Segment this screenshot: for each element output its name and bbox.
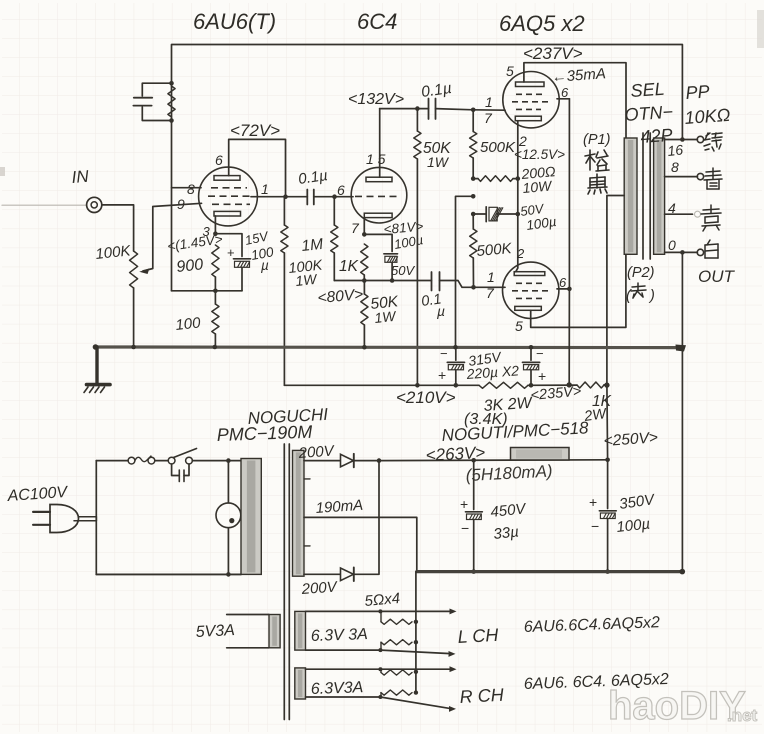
plug AC body xyxy=(50,505,79,533)
svg-text:1: 1 xyxy=(261,181,269,197)
wire primary loop top xyxy=(96,460,128,462)
svg-text:<263V>: <263V> xyxy=(425,443,486,465)
node pilot bottom xyxy=(226,572,231,577)
wire 100 to ground bus xyxy=(214,291,216,304)
svg-text:8: 8 xyxy=(671,159,679,175)
wire 50K cathode load xyxy=(363,281,365,295)
svg-text:7: 7 xyxy=(484,110,493,126)
cord to loop xyxy=(79,516,97,518)
svg-text:<210V>: <210V> xyxy=(396,388,456,407)
svg-text:PMC−190M: PMC−190M xyxy=(216,422,312,445)
wire 100K1W vertical plate feed to B+ rail xyxy=(283,253,285,385)
svg-text:1: 1 xyxy=(487,269,495,285)
tube V4 cathode bar xyxy=(514,272,545,276)
wire HV center tap xyxy=(304,517,417,571)
svg-text:6.3V3A: 6.3V3A xyxy=(311,679,364,698)
node cap bottom xyxy=(390,278,395,283)
kanji midori green xyxy=(704,133,722,151)
wire bias ground branch xyxy=(456,196,474,346)
capacitor 100u 350V filter xyxy=(607,460,609,509)
resistor 100K 1W V1 plate load xyxy=(281,225,288,253)
node B+ 50Kfeed xyxy=(415,383,420,388)
node bus biascap2 xyxy=(529,345,534,350)
svg-text:OUT: OUT xyxy=(698,267,736,286)
node hum center R1 xyxy=(414,670,418,674)
svg-text:<12.5V>: <12.5V> xyxy=(514,147,565,162)
svg-text:6: 6 xyxy=(561,85,569,100)
svg-text:5V3A: 5V3A xyxy=(195,622,235,641)
wire humdinger bus xyxy=(415,572,417,694)
wire V1 cathode stem xyxy=(214,216,216,234)
node cathode-200ohm xyxy=(516,176,521,181)
svg-text:<132V>: <132V> xyxy=(348,91,404,108)
svg-text:500K: 500K xyxy=(476,240,513,260)
capacitor 0.1u coupling upper xyxy=(428,99,430,120)
terminal 8 ohm blue xyxy=(697,173,703,179)
node 100u bottom xyxy=(605,569,610,574)
wire B+ rail xyxy=(284,384,479,386)
wire primary loop left+bottom xyxy=(95,461,97,521)
label P1 orange black kanji xyxy=(585,150,609,171)
svg-text:R CH: R CH xyxy=(459,685,505,707)
transformer PT 6.3V winding L xyxy=(295,611,306,650)
resistor 1K V2 cathode xyxy=(361,244,368,275)
svg-text:µ: µ xyxy=(437,303,445,319)
node rectifier output xyxy=(377,458,382,463)
svg-text:+: + xyxy=(227,245,235,260)
resistor VR1 100K volume pot xyxy=(130,251,138,288)
node bias cap left xyxy=(471,212,476,217)
wire shared cathode line xyxy=(517,121,519,268)
svg-text:−: − xyxy=(461,520,469,536)
ground symbol stem xyxy=(95,347,98,383)
wire 5V leads xyxy=(227,614,269,616)
svg-text:1K: 1K xyxy=(339,258,359,275)
transformer OPT core xyxy=(642,133,644,259)
wire V4 screen pin6 xyxy=(557,288,569,290)
node hum center L2 xyxy=(414,640,418,644)
node coupling right xyxy=(332,194,337,199)
svg-text:1: 1 xyxy=(485,94,493,110)
node pilot top xyxy=(226,458,231,463)
wire 132V rail xyxy=(380,108,429,110)
svg-text:.net: .net xyxy=(727,706,758,725)
tube V2 6C4 envelope xyxy=(351,167,407,223)
tube V4 plate bar xyxy=(515,306,542,310)
pot wiper arrow to V1 grid xyxy=(143,203,202,271)
node NFB top xyxy=(169,81,174,86)
node 900 bottom xyxy=(213,289,218,294)
wire 0-tap ground drop xyxy=(681,348,683,572)
svg-text:100: 100 xyxy=(175,314,202,334)
svg-text:−: − xyxy=(591,518,599,534)
wire secondary tap 4 xyxy=(665,213,693,215)
lamp PL pilot xyxy=(216,503,241,528)
svg-text:1W: 1W xyxy=(295,271,319,289)
wire D1 to B node xyxy=(354,460,379,462)
wire V2 plate to 132V rail xyxy=(379,109,381,178)
node bus pot xyxy=(131,345,136,350)
svg-text:5Ωx4: 5Ωx4 xyxy=(364,590,401,610)
wire 6.3VR top lead xyxy=(306,668,450,670)
svg-text:8: 8 xyxy=(187,181,195,197)
wire 1K to 80V rail xyxy=(363,275,365,281)
resistor NFB feedback xyxy=(168,86,175,117)
resistor 500K upper grid leak xyxy=(470,132,477,159)
capacitor 220u X2 unit1 xyxy=(455,347,457,360)
transformer PT core xyxy=(283,444,285,720)
wire HV top tap to D1 xyxy=(304,460,340,462)
diode D1 xyxy=(341,454,354,467)
resistor hum 5ohm R1 xyxy=(380,669,382,672)
node hum center R2 xyxy=(414,690,418,694)
resistor 900 cathode bias xyxy=(212,245,219,277)
node B+ cap1 xyxy=(454,383,459,388)
resistor 1K 2W dropper xyxy=(577,382,604,388)
wire cathode rail bottom xyxy=(172,290,243,292)
svg-text:6: 6 xyxy=(215,152,223,168)
node cap-200 junction xyxy=(471,176,476,181)
capacitor 100u 50V V2 bypass xyxy=(364,234,392,251)
capacitor C 0.1u coupling 1 xyxy=(306,190,308,205)
wire 6.3VL bottom lead xyxy=(306,650,449,653)
wire screen bus to 1K2W xyxy=(568,289,570,385)
transformer OPT primary winding xyxy=(624,138,637,254)
transformer OPT secondary winding xyxy=(654,138,665,254)
tube V2 grid dash xyxy=(355,195,401,197)
resistor 500K lower grid leak xyxy=(470,229,477,258)
node bus corner left xyxy=(93,344,99,350)
tube V1 6AU6 envelope xyxy=(199,167,258,226)
node tap0-ground xyxy=(680,250,685,255)
svg-text:<237V>: <237V> xyxy=(523,44,583,63)
wire secondary tap 0 xyxy=(665,251,698,253)
jack J1 input inner xyxy=(91,202,97,208)
svg-text:−: − xyxy=(536,346,544,361)
node hum R bottom xyxy=(378,695,382,699)
wire 250V riser xyxy=(606,385,609,460)
kanji aka red xyxy=(631,283,646,298)
svg-text:50V: 50V xyxy=(391,263,415,278)
wire V4 plate pin5 to OPT P2 xyxy=(531,254,626,327)
svg-text:2: 2 xyxy=(516,246,525,261)
node hum L top xyxy=(378,609,382,613)
node NFB bottom xyxy=(169,118,174,123)
switch S1 xyxy=(168,457,175,464)
svg-text:haoDIY: haoDIY xyxy=(608,684,746,728)
wire V1 plate pin1 to coupling node xyxy=(251,196,286,198)
wire 6.3VR bottom lead xyxy=(306,697,450,708)
resistor 50K 1W V2 plate load xyxy=(414,131,421,159)
capacitor 33u 450V filter xyxy=(473,460,475,509)
svg-text:6AU6(T): 6AU6(T) xyxy=(193,9,276,34)
svg-text:5: 5 xyxy=(515,318,523,334)
tube V3 plate bar xyxy=(516,82,545,87)
svg-text:10W: 10W xyxy=(522,177,554,196)
junction blob bus right xyxy=(676,345,687,352)
choke CH 5H180mA xyxy=(511,448,570,461)
transformer PT 5V winding xyxy=(269,615,280,648)
diode D2 xyxy=(341,568,354,581)
svg-text:7: 7 xyxy=(351,220,360,236)
svg-text:+: + xyxy=(438,367,446,383)
arrow L top xyxy=(450,608,457,614)
wire faint input lead at page edge xyxy=(2,204,86,206)
svg-text:µ: µ xyxy=(261,258,269,273)
wire V4 grid lead xyxy=(474,286,506,288)
svg-text:100µ: 100µ xyxy=(616,516,651,536)
svg-text:10KΩ: 10KΩ xyxy=(684,105,731,128)
capacitor 100u 50V bias bypass xyxy=(473,213,486,215)
resistor hum 5ohm R2 xyxy=(380,693,382,697)
node B+ cap2 xyxy=(529,383,534,388)
svg-text:L CH: L CH xyxy=(457,625,500,647)
plug AC prongs xyxy=(33,511,50,513)
svg-text:6AQ5 x2: 6AQ5 x2 xyxy=(499,11,585,36)
transformer PT primary winding xyxy=(241,459,261,575)
tube V3 6AQ5 upper envelope xyxy=(503,72,559,128)
tube V3 grid dashes xyxy=(516,93,546,95)
svg-text:200V: 200V xyxy=(297,442,336,462)
svg-text:OTN−: OTN− xyxy=(624,102,674,125)
node tap16-NFB xyxy=(680,137,685,142)
node screen lower xyxy=(567,287,572,292)
capacitor spark snubber xyxy=(172,464,180,476)
wire 500K lower ends xyxy=(472,214,474,229)
resistor 100 feedback leg xyxy=(212,304,219,334)
node bias-ground tap xyxy=(471,194,476,199)
kanji ki yellow xyxy=(701,205,721,231)
svg-text:190mA: 190mA xyxy=(315,497,364,517)
resistor hum 5ohm L1 xyxy=(380,611,382,621)
resistor hum 5ohm L2 xyxy=(380,642,382,650)
svg-text:900: 900 xyxy=(176,256,204,276)
edge artifact right xyxy=(757,10,764,48)
svg-text:500K: 500K xyxy=(480,139,516,156)
tube V1 cathode bar pin3 xyxy=(214,211,241,216)
wire jack to volume pot xyxy=(102,205,134,251)
node B+ 235V xyxy=(567,382,572,387)
node PS ground right end xyxy=(680,569,686,575)
transformer PT 6.3V winding R xyxy=(295,668,306,699)
svg-text:SEL: SEL xyxy=(630,79,665,101)
svg-text:1W: 1W xyxy=(374,308,398,326)
svg-text:IN: IN xyxy=(71,167,90,187)
node 250V line xyxy=(605,458,610,463)
wire pilot lamp taps xyxy=(227,461,229,503)
wire 0 tap down to ground bus xyxy=(681,252,683,347)
svg-text:(P1): (P1) xyxy=(583,132,610,148)
node hum R top xyxy=(378,667,382,671)
transformer PT HV ticks xyxy=(304,478,310,480)
wire screen bus vertical xyxy=(568,99,570,289)
node plate coupling left xyxy=(283,194,288,199)
wire secondary tap 8 xyxy=(665,176,698,178)
node lower grid xyxy=(471,285,476,290)
wire PS ground line xyxy=(417,570,683,573)
svg-text:PP: PP xyxy=(685,81,710,103)
resistor 3K 2W dropper xyxy=(479,382,528,388)
transformer PT HV secondary winding xyxy=(293,450,305,576)
arrow L bottom xyxy=(449,651,456,657)
svg-text:+: + xyxy=(460,496,468,512)
wire V3 plate pin5 to OPT P1 xyxy=(524,63,626,138)
tube V1 screen bar pin6 xyxy=(214,176,240,181)
wire NFB top rail from feedback net to 16-ohm tap xyxy=(172,45,683,140)
svg-text:0: 0 xyxy=(668,237,676,253)
tube V1 grid dashes xyxy=(211,187,247,189)
wire V3 screen pin6 xyxy=(557,98,569,100)
wire 263V line to choke xyxy=(379,459,608,462)
svg-text:1W: 1W xyxy=(427,154,450,170)
svg-text:): ) xyxy=(648,288,655,304)
resistor 200ohm 10W bias xyxy=(478,176,513,182)
node V1 cathode xyxy=(213,231,218,236)
node 50K feed xyxy=(415,106,420,111)
capacitor 220u X2 unit2 xyxy=(530,347,532,360)
capacitor 100u 15V cathode bypass branch xyxy=(215,234,242,257)
svg-text:6: 6 xyxy=(337,182,345,198)
capacitor 0.1u coupling lower xyxy=(431,272,433,291)
edge artifact left xyxy=(0,167,5,176)
node B+ 250V xyxy=(604,382,609,387)
svg-text:33µ: 33µ xyxy=(493,523,520,543)
node 1K bottom xyxy=(362,278,367,283)
wire NFB down to V1 cathode circuit xyxy=(171,121,173,291)
svg-text:200V: 200V xyxy=(300,578,339,598)
svg-text:6.3V 3A: 6.3V 3A xyxy=(311,626,368,645)
arrow R top xyxy=(450,666,457,672)
arrow R bottom xyxy=(449,706,456,712)
wire 500K upper ends xyxy=(472,110,474,132)
svg-text:6: 6 xyxy=(559,275,567,290)
wire pot bottom to ground bus xyxy=(133,288,135,347)
svg-text:4: 4 xyxy=(668,200,676,216)
node bus 100 xyxy=(213,345,218,350)
node upper grid xyxy=(471,108,476,113)
wire 80V rail xyxy=(334,280,431,282)
wire secondary tap 16 xyxy=(665,139,698,141)
svg-text:+: + xyxy=(589,494,597,510)
wire V2 grid lead xyxy=(335,196,354,198)
node hum L bottom xyxy=(378,648,382,652)
node V2 cathode xyxy=(362,232,367,237)
terminal 0 ohm white xyxy=(697,249,703,255)
fuse F1 xyxy=(128,457,135,464)
svg-text:16: 16 xyxy=(667,141,684,159)
svg-text:−: − xyxy=(440,346,448,361)
resistor 50K 1W cathode load xyxy=(361,294,368,325)
ground symbol bar xyxy=(87,383,111,387)
wire V1 pin6 to 72V bracket to plate node xyxy=(229,139,286,196)
wire V2 cathode stem xyxy=(363,218,365,235)
node bias cap right xyxy=(516,212,521,217)
wire 6.3VL top lead xyxy=(306,610,450,612)
terminal 16 ohm green xyxy=(697,136,703,142)
jack J1 input outer xyxy=(87,197,102,212)
wire V1 pin8 to NFB line xyxy=(172,187,202,189)
node 33u bottom xyxy=(471,569,476,574)
svg-text:1 5: 1 5 xyxy=(366,151,386,167)
svg-text:1M: 1M xyxy=(301,236,324,255)
wire 900 to bottom rail xyxy=(214,277,216,291)
node bus 50K xyxy=(362,345,367,350)
capacitor NFB phase comp xyxy=(142,83,171,96)
wire 50K1W vertical to B+ rail xyxy=(416,109,418,131)
wire D2 up to B node xyxy=(354,461,379,575)
svg-text:6C4: 6C4 xyxy=(357,9,397,34)
tube V2 cathode bar xyxy=(364,213,392,217)
wire OPT primary center tap to B+ xyxy=(607,196,624,386)
tube V4 grid dashes xyxy=(516,282,546,284)
svg-text:5: 5 xyxy=(506,63,514,79)
wire 200ohm ends xyxy=(473,178,478,180)
tube V2 plate bar xyxy=(366,177,392,182)
wire HV bottom tap to D2 xyxy=(304,573,340,575)
svg-text:<72V>: <72V> xyxy=(230,121,280,140)
kanji shiro white xyxy=(705,240,718,258)
node 33u top xyxy=(471,458,476,463)
kanji ao blue xyxy=(704,168,722,189)
tube V4 6AQ5 lower envelope xyxy=(503,262,559,318)
ground bus main xyxy=(95,345,684,349)
node hum center L1 xyxy=(414,620,418,624)
resistor 1M grid leak V2 xyxy=(331,225,338,253)
node bus biascap1 xyxy=(453,345,458,350)
svg-text:9: 9 xyxy=(177,196,185,212)
tube V3 cathode bar xyxy=(515,116,541,121)
terminal 4 ohm faint xyxy=(695,211,701,217)
wire 1M to 80V rail xyxy=(333,197,335,225)
svg-text:+: + xyxy=(538,368,546,384)
svg-text:(P2): (P2) xyxy=(627,265,654,281)
ground symbol hatches xyxy=(84,387,88,393)
